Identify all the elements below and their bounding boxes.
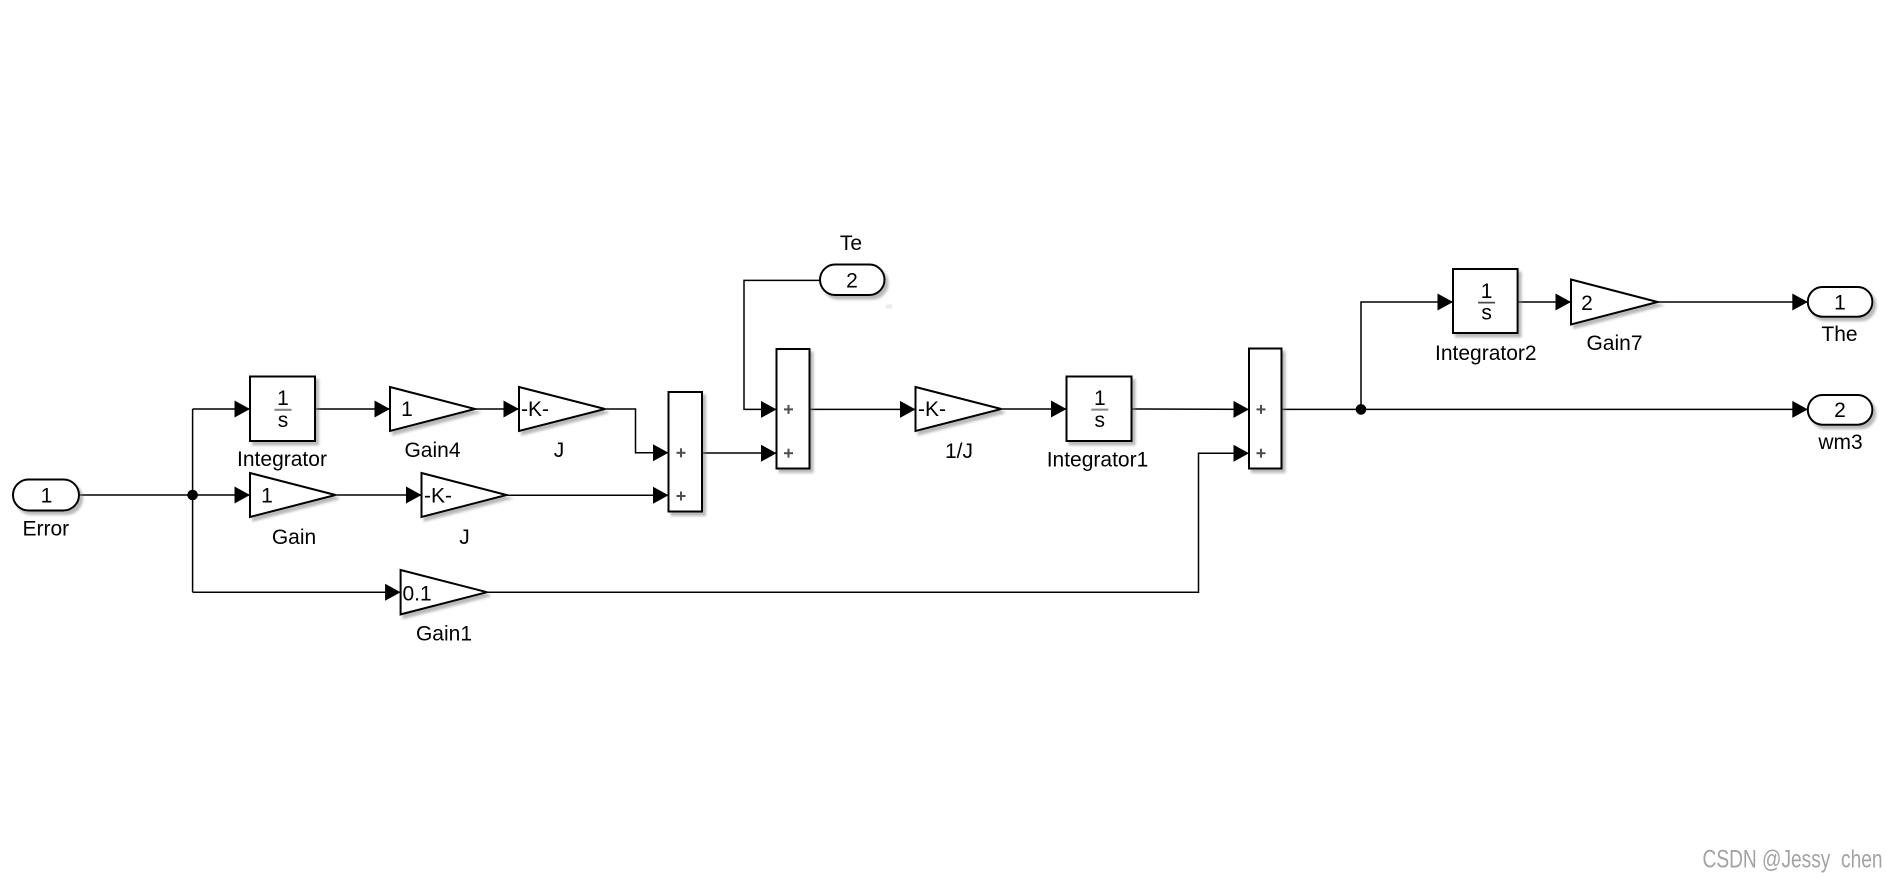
sum block Sum [669,392,703,512]
svg-text:1: 1 [1094,387,1106,410]
arrowhead into Sum1 in1 [761,401,777,418]
arrowhead into Gain7 [1556,294,1572,311]
svg-text:1: 1 [261,485,273,508]
arrowhead into Sum1 in2 [761,445,777,462]
gain J bottom [422,473,507,517]
wire trunk to Gain1 [193,591,401,593]
svg-text:wm3: wm3 [1817,431,1862,454]
gain 1/J [916,387,1002,431]
wire 1/J to Integrator1 [1001,408,1066,410]
sum block Sum1 [777,349,810,469]
wire J to Sum in1 [605,409,669,453]
svg-text:Gain7: Gain7 [1586,332,1642,355]
arrowhead into 1/J [900,401,916,418]
svg-text:1: 1 [401,398,413,421]
wire Gain7 to The [1658,301,1808,303]
svg-text:1: 1 [41,485,53,508]
svg-text:-K-: -K- [918,398,946,421]
svg-text:0.1: 0.1 [403,583,432,606]
wire Integrator to Gain4 [315,408,390,410]
arrowhead into Integrator2 [1438,294,1454,311]
svg-text:2: 2 [1834,399,1846,422]
svg-text:1: 1 [277,387,289,410]
plus sign Sum in1 [677,448,686,457]
integrator block Integrator2 [1453,269,1518,333]
wire Sum1 to 1/J [810,408,916,410]
wire Error to junction [79,494,193,496]
arrowhead into Integrator [235,401,251,418]
wire Gain4 to J [475,408,519,410]
svg-text:1: 1 [1481,280,1493,303]
wire vertical trunk from top row to Gain1 row [192,409,194,592]
arrowhead into Sum2 in2 [1234,445,1250,462]
svg-text:Te: Te [840,232,862,255]
arrowhead into wm3 [1792,401,1808,418]
plus sign Sum2 in1 [1257,405,1266,414]
plus sign Sum in2 [677,492,686,501]
svg-text:2: 2 [846,270,858,293]
svg-text:J: J [459,526,470,549]
svg-text:2: 2 [1581,292,1593,315]
wire Te inport to Sum1 in1 [744,280,820,409]
wire junction2 up to Integrator2 [1361,302,1453,409]
wire Gain to J1 [336,494,422,496]
arrowhead into Gain [235,487,251,504]
inport 2 Te [820,265,885,296]
svg-text:1/J: 1/J [945,440,973,463]
junction node at Sum2 output branch [1356,404,1367,415]
outport 1 The [1808,287,1873,317]
arrowhead into Sum in1 [653,444,669,461]
svg-text:1: 1 [1834,292,1846,315]
gain Gain [250,473,336,517]
svg-text:Gain1: Gain1 [416,623,472,646]
arrowhead into The [1792,294,1808,311]
svg-text:J: J [554,439,565,462]
plus sign Sum2 in2 [1257,449,1266,458]
gain Gain4 [390,387,475,431]
watermark artifact square [886,305,893,309]
junction node at Error branch [187,490,198,501]
integrator block Integrator [250,377,315,442]
arrowhead into Integrator1 [1051,401,1067,418]
outport 2 wm3 [1808,395,1873,425]
svg-text:Gain4: Gain4 [404,439,460,462]
svg-text:CSDN @Jessy chen: CSDN @Jessy chen [1703,846,1883,874]
arrowhead into J [504,401,520,418]
svg-text:-K-: -K- [521,398,549,421]
arrowhead into Gain1 [385,584,401,601]
wire junction to Gain [193,494,250,496]
svg-text:Error: Error [22,518,69,541]
sum block Sum2 [1249,349,1282,469]
svg-text:Integrator1: Integrator1 [1047,449,1149,472]
wire to Integrator [193,408,250,410]
wire Gain1 to Sum2 in2 [487,453,1249,592]
wire Integrator2 to Gain7 [1518,301,1571,303]
wire Sum to Sum1 in2 [702,452,777,454]
svg-text:The: The [1821,323,1857,346]
arrowhead into Gain4 [375,401,391,418]
arrowhead into Sum2 in1 [1234,401,1250,418]
svg-text:Gain: Gain [272,526,316,549]
svg-text:s: s [1481,302,1492,325]
svg-text:s: s [1095,409,1106,432]
wire Sum2 to wm3 [1282,408,1808,410]
gain Gain7 [1571,280,1658,325]
svg-text:Integrator: Integrator [237,448,327,471]
arrowhead into J1 [406,487,422,504]
svg-text:s: s [278,409,289,432]
svg-text:Integrator2: Integrator2 [1435,342,1537,365]
wire Integrator1 to Sum2 in1 [1132,408,1250,410]
integrator block Integrator1 [1067,377,1132,442]
inport 1 Error [13,480,79,511]
gain Gain1 [401,570,487,614]
plus sign Sum1 in1 [784,405,793,414]
gain J top [519,387,605,431]
svg-text:-K-: -K- [424,485,452,508]
arrowhead into Sum in2 [653,487,669,504]
wire J1 to Sum in2 [507,494,669,496]
plus sign Sum1 in2 [784,449,793,458]
